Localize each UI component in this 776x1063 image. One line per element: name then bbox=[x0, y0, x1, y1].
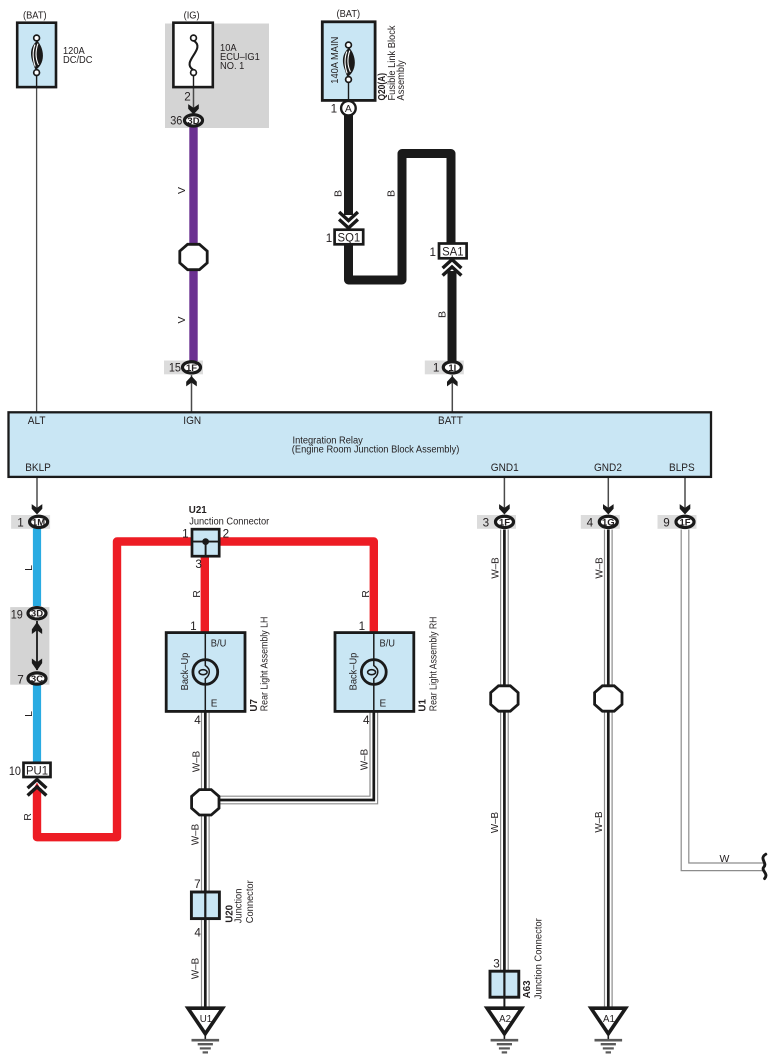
svg-text:Connector: Connector bbox=[245, 880, 256, 924]
svg-text:W–B: W–B bbox=[489, 812, 501, 833]
svg-text:(BAT): (BAT) bbox=[337, 9, 361, 20]
svg-text:7: 7 bbox=[17, 673, 24, 686]
svg-text:Back–Up: Back–Up bbox=[348, 652, 359, 690]
svg-text:19: 19 bbox=[11, 609, 23, 622]
svg-text:W–B: W–B bbox=[359, 749, 371, 770]
svg-text:A: A bbox=[345, 103, 352, 115]
svg-text:U1: U1 bbox=[416, 699, 428, 712]
svg-text:1: 1 bbox=[433, 361, 440, 374]
svg-text:L: L bbox=[23, 711, 35, 717]
svg-text:7: 7 bbox=[194, 878, 201, 891]
svg-text:V: V bbox=[176, 187, 188, 194]
svg-text:A63: A63 bbox=[521, 980, 533, 998]
svg-text:A2: A2 bbox=[499, 1013, 511, 1025]
svg-text:B/U: B/U bbox=[211, 639, 227, 650]
svg-text:1F: 1F bbox=[499, 517, 510, 528]
svg-text:10: 10 bbox=[9, 765, 22, 778]
svg-text:W–B: W–B bbox=[593, 811, 605, 832]
svg-text:SA1: SA1 bbox=[442, 244, 464, 258]
svg-text:Junction: Junction bbox=[233, 889, 244, 924]
svg-text:BLPS: BLPS bbox=[669, 462, 695, 474]
svg-text:NO. 1: NO. 1 bbox=[220, 61, 245, 72]
svg-text:36: 36 bbox=[170, 115, 182, 128]
svg-text:W–B: W–B bbox=[490, 557, 502, 578]
svg-text:(BAT): (BAT) bbox=[23, 10, 47, 21]
svg-text:E: E bbox=[380, 698, 387, 709]
svg-text:E: E bbox=[211, 698, 218, 709]
svg-text:R: R bbox=[360, 590, 372, 598]
svg-text:1: 1 bbox=[429, 246, 436, 259]
svg-text:Junction Connector: Junction Connector bbox=[534, 918, 545, 1000]
svg-text:1: 1 bbox=[182, 528, 189, 541]
svg-text:9: 9 bbox=[663, 517, 670, 530]
svg-text:A1: A1 bbox=[603, 1013, 615, 1025]
svg-text:3: 3 bbox=[483, 517, 490, 530]
svg-text:W–B: W–B bbox=[594, 557, 606, 578]
svg-text:SQ1: SQ1 bbox=[338, 231, 361, 245]
svg-text:BKLP: BKLP bbox=[25, 462, 51, 474]
svg-text:B/U: B/U bbox=[380, 639, 396, 650]
svg-text:GND1: GND1 bbox=[491, 462, 519, 474]
svg-text:3: 3 bbox=[195, 558, 202, 571]
svg-text:U7: U7 bbox=[248, 699, 260, 712]
svg-text:PU1: PU1 bbox=[26, 764, 48, 778]
svg-text:1F: 1F bbox=[186, 363, 197, 374]
svg-text:V: V bbox=[176, 316, 188, 323]
svg-text:Rear Light Assembly RH: Rear Light Assembly RH bbox=[429, 617, 440, 712]
svg-text:R: R bbox=[191, 590, 203, 598]
svg-text:U1: U1 bbox=[200, 1013, 213, 1025]
svg-text:4: 4 bbox=[363, 714, 370, 727]
svg-text:U21: U21 bbox=[189, 504, 207, 516]
svg-text:IGN: IGN bbox=[183, 415, 201, 427]
svg-text:1: 1 bbox=[190, 620, 197, 633]
svg-text:Assembly: Assembly bbox=[396, 60, 407, 100]
svg-text:R: R bbox=[22, 813, 34, 821]
svg-text:1: 1 bbox=[331, 103, 338, 116]
svg-text:1: 1 bbox=[359, 620, 366, 633]
svg-text:B: B bbox=[437, 311, 449, 318]
svg-text:1F: 1F bbox=[679, 517, 690, 528]
svg-text:1G: 1G bbox=[602, 517, 615, 528]
svg-text:W–B: W–B bbox=[191, 751, 203, 772]
svg-text:W–B: W–B bbox=[190, 958, 202, 979]
svg-text:1I: 1I bbox=[448, 363, 456, 374]
svg-text:ALT: ALT bbox=[28, 415, 46, 427]
svg-text:1: 1 bbox=[326, 232, 333, 245]
svg-text:Junction Connector: Junction Connector bbox=[189, 517, 270, 528]
svg-text:BATT: BATT bbox=[438, 415, 463, 427]
svg-text:15: 15 bbox=[169, 361, 182, 374]
svg-text:1: 1 bbox=[17, 517, 24, 530]
svg-text:(Engine Room Junction Block As: (Engine Room Junction Block Assembly) bbox=[292, 445, 460, 456]
svg-text:3: 3 bbox=[493, 958, 500, 971]
svg-text:DC/DC: DC/DC bbox=[63, 55, 93, 66]
svg-text:GND2: GND2 bbox=[594, 462, 622, 474]
svg-text:L: L bbox=[23, 565, 35, 571]
svg-text:Rear Light Assembly LH: Rear Light Assembly LH bbox=[260, 617, 271, 712]
svg-text:W–B: W–B bbox=[190, 824, 202, 845]
svg-text:4: 4 bbox=[194, 714, 201, 727]
svg-text:B: B bbox=[385, 190, 397, 197]
svg-text:3D: 3D bbox=[31, 609, 43, 620]
svg-text:140A MAIN: 140A MAIN bbox=[330, 37, 341, 84]
svg-text:3D: 3D bbox=[187, 116, 199, 127]
svg-text:4: 4 bbox=[587, 517, 594, 530]
svg-text:4: 4 bbox=[194, 926, 201, 939]
svg-text:Back–Up: Back–Up bbox=[180, 652, 191, 690]
svg-text:W: W bbox=[720, 853, 730, 865]
svg-text:1M: 1M bbox=[32, 517, 45, 528]
svg-text:B: B bbox=[332, 190, 344, 197]
svg-text:2: 2 bbox=[223, 528, 230, 541]
svg-text:(IG): (IG) bbox=[184, 10, 200, 21]
svg-text:2: 2 bbox=[184, 91, 191, 104]
svg-text:3C: 3C bbox=[31, 674, 43, 685]
